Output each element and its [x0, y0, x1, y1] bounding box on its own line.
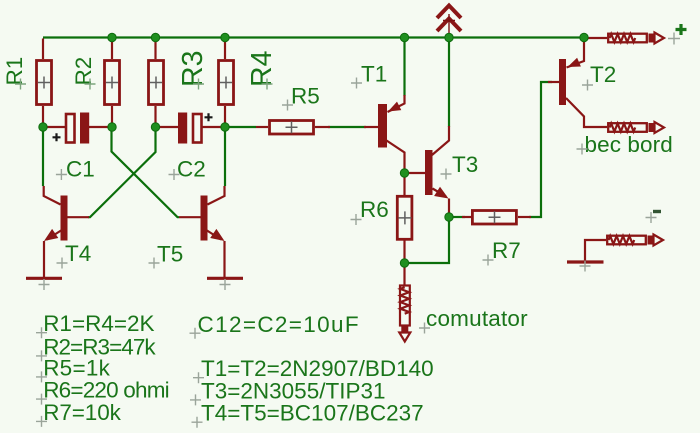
- label R4: [246, 50, 278, 87]
- resistor R7 leads: [462, 216, 531, 218]
- resistor R6 leads: [403, 173, 405, 263]
- power V+ symbol: [437, 6, 461, 37]
- wire V+ top rail: [43, 36, 584, 38]
- wire T1 emitter net vertical: [403, 38, 405, 97]
- junction node R2/C1: [108, 123, 116, 131]
- transistor T1 base pin: [364, 126, 378, 128]
- wire cross-coupling net R2-to-T5 base: [112, 127, 180, 217]
- label R5: [291, 84, 320, 109]
- ground T5: [207, 277, 243, 280]
- origin cross C2: [169, 169, 180, 180]
- origin cross line6: [190, 328, 201, 339]
- transistor T2 base bar: [559, 59, 566, 105]
- junction top rail at T2 emitter: [580, 33, 588, 41]
- svg-text:R7: R7: [492, 238, 521, 263]
- transistor T3 collector pin: [432, 126, 449, 155]
- transistor T5 base bar: [201, 196, 208, 241]
- svg-text:R4: R4: [246, 50, 278, 87]
- junction top rail at R3: [151, 33, 159, 41]
- wire R1 collector net down-left: [42, 127, 44, 186]
- resistor R4 body: [219, 61, 234, 105]
- origin cross T3: [441, 169, 452, 180]
- junction top rail at R4: [221, 33, 229, 41]
- resistor R2 leads: [111, 38, 113, 128]
- transistor T5 emitter pin: [207, 229, 225, 277]
- junction node R3/C2: [151, 123, 159, 131]
- origin cross line4: [36, 394, 47, 405]
- label bec bord: [585, 132, 673, 157]
- svg-text:T3=2N3055/TIP31: T3=2N3055/TIP31: [201, 378, 386, 403]
- transistor T2 collector pin: [566, 98, 607, 127]
- origin cross R5: [282, 100, 293, 111]
- label R1: [2, 57, 27, 86]
- svg-text:T4: T4: [65, 241, 91, 266]
- capacitor C2 plates: [178, 113, 202, 144]
- transistor T4 base pin: [68, 216, 90, 218]
- origin cross - output: [646, 212, 657, 223]
- origin cross T5 ground: [220, 279, 231, 290]
- label T2: [590, 62, 616, 87]
- jack - output plug: [607, 235, 663, 246]
- capacitor C2 polarity +: [205, 113, 213, 121]
- origin cross line3: [36, 371, 47, 382]
- transistor T2 emitter pin: [567, 39, 585, 68]
- wire R7-to-T2 base: [529, 82, 552, 217]
- origin cross R4: [262, 79, 273, 90]
- jack - output lead: [585, 240, 606, 261]
- origin cross R6: [351, 214, 362, 225]
- text T1=T2=2N2907/BD140: [201, 356, 434, 381]
- svg-text:T1: T1: [361, 62, 387, 87]
- label - output: [653, 210, 661, 213]
- junction node R1/C1: [39, 123, 47, 131]
- origin cross R7: [483, 255, 494, 266]
- wire cross-coupling net R3-to-T4 base: [88, 127, 156, 217]
- text R5=1k: [43, 355, 110, 380]
- resistor R2 body: [105, 61, 120, 105]
- svg-text:comutator: comutator: [426, 306, 528, 331]
- svg-text:R6=220 ohmi: R6=220 ohmi: [43, 378, 169, 403]
- wire T3 collector net vertical: [448, 38, 450, 128]
- origin cross T5: [149, 258, 160, 269]
- origin cross line2: [36, 350, 47, 361]
- transistor T4 collector pin: [44, 186, 61, 205]
- text R7=10k: [43, 400, 121, 425]
- svg-text:R1=R4=2K: R1=R4=2K: [43, 311, 154, 336]
- transistor T1 collector pin: [387, 141, 405, 174]
- label R7: [492, 238, 521, 263]
- svg-text:C12=C2=10uF: C12=C2=10uF: [198, 312, 360, 337]
- origin cross T1: [351, 78, 362, 89]
- svg-text:R2: R2: [71, 57, 96, 86]
- resistor R5 leads: [256, 126, 330, 128]
- junction node R4/C2/R5: [221, 123, 229, 131]
- text T4=T5=BC107/BC237: [201, 401, 424, 426]
- origin cross line5: [36, 416, 47, 427]
- text R2=R3=47k: [43, 334, 156, 359]
- label C2: [177, 157, 206, 182]
- text R1=R4=2K: [43, 311, 154, 336]
- resistor R3 leads: [154, 38, 156, 128]
- svg-text:C2: C2: [177, 157, 206, 182]
- svg-text:R3: R3: [177, 51, 209, 87]
- junction node T3 emitter/R7: [445, 213, 453, 221]
- label + output: [676, 24, 687, 35]
- origin cross T4 ground: [39, 279, 50, 290]
- origin cross line9: [192, 417, 203, 428]
- resistor R5 body: [270, 121, 314, 135]
- svg-text:R7=10k: R7=10k: [43, 400, 121, 425]
- label T5: [157, 242, 183, 267]
- origin cross R1: [15, 79, 26, 90]
- junction top rail at T1 emitter: [400, 33, 408, 41]
- text R6=220 ohmi: [43, 378, 169, 403]
- wire T5 collector net down-right: [224, 127, 226, 186]
- origin cross + output: [668, 33, 680, 45]
- wire C2-to-R5: [225, 126, 256, 128]
- origin cross bec bord: [577, 144, 588, 155]
- jack + output lead: [584, 37, 607, 39]
- svg-text:T3: T3: [452, 152, 478, 177]
- transistor T5 base pin: [179, 216, 201, 218]
- label R2: [71, 57, 96, 86]
- svg-text:T5: T5: [157, 242, 183, 267]
- wire R5-to-T1 base: [328, 126, 366, 128]
- label comutator: [426, 306, 528, 331]
- junction top rail at V+ symbol: [445, 33, 453, 41]
- transistor T1 base bar: [378, 104, 387, 148]
- origin cross T4: [57, 258, 68, 269]
- junction top rail at R2: [108, 33, 116, 41]
- label R3: [177, 51, 209, 87]
- resistor R7 body: [472, 211, 516, 225]
- wire R7 left lead net: [449, 216, 465, 218]
- transistor T3 base bar: [425, 150, 433, 195]
- origin cross line1: [36, 327, 47, 338]
- resistor R1 leads: [42, 39, 44, 128]
- resistor R4 leads: [224, 38, 226, 128]
- jack + output plug: [608, 33, 664, 44]
- text T3=2N3055/TIP31: [201, 378, 386, 403]
- label T1: [361, 62, 387, 87]
- svg-text:R1: R1: [2, 57, 27, 86]
- ground T4: [26, 277, 62, 280]
- transistor T3 base pin: [405, 172, 426, 174]
- resistor R3 body: [149, 61, 164, 105]
- capacitor C1 polarity +: [53, 133, 61, 141]
- transistor T4 base bar: [61, 196, 68, 241]
- transistor T4 emitter pin: [44, 229, 61, 277]
- label T3: [452, 152, 478, 177]
- origin cross R3: [193, 79, 204, 90]
- capacitor C1 leads: [43, 126, 112, 128]
- origin cross comutator: [419, 323, 430, 334]
- svg-text:C1: C1: [66, 157, 95, 182]
- svg-text:T4=T5=BC107/BC237: T4=T5=BC107/BC237: [201, 401, 424, 426]
- svg-text:R5: R5: [291, 84, 320, 109]
- origin cross T2: [582, 80, 593, 91]
- transistor T3 emitter pin: [433, 187, 450, 217]
- origin cross C1: [56, 169, 67, 180]
- ground - output: [567, 260, 604, 263]
- resistor R1 body: [37, 61, 52, 105]
- capacitor C1 plates: [66, 113, 89, 144]
- text C12=C2=10uF: [198, 312, 360, 337]
- origin cross line7: [193, 372, 204, 383]
- resistor R6 body: [397, 196, 412, 239]
- label R6: [360, 197, 389, 222]
- transistor T1 emitter pin: [388, 95, 405, 112]
- svg-text:R6: R6: [360, 197, 389, 222]
- junction node R6/comutator: [400, 259, 408, 267]
- junction node T1 collector/T3 base/R6: [400, 169, 408, 177]
- wire R6 bottom to T3 emitter node: [405, 217, 450, 263]
- comutator lead: [403, 263, 405, 285]
- origin cross R2: [85, 79, 96, 90]
- svg-text:T2: T2: [590, 62, 616, 87]
- comutator plug body: [399, 286, 410, 342]
- jack bec bord plug: [608, 122, 664, 133]
- origin cross line8: [190, 394, 201, 405]
- label C1: [66, 157, 95, 182]
- label T4: [65, 241, 91, 266]
- transistor T2 base pin: [548, 81, 559, 83]
- origin cross - output ground: [580, 261, 591, 272]
- svg-text:bec bord: bec bord: [585, 132, 673, 157]
- transistor T5 collector pin: [208, 186, 225, 205]
- capacitor C2 leads: [156, 126, 226, 128]
